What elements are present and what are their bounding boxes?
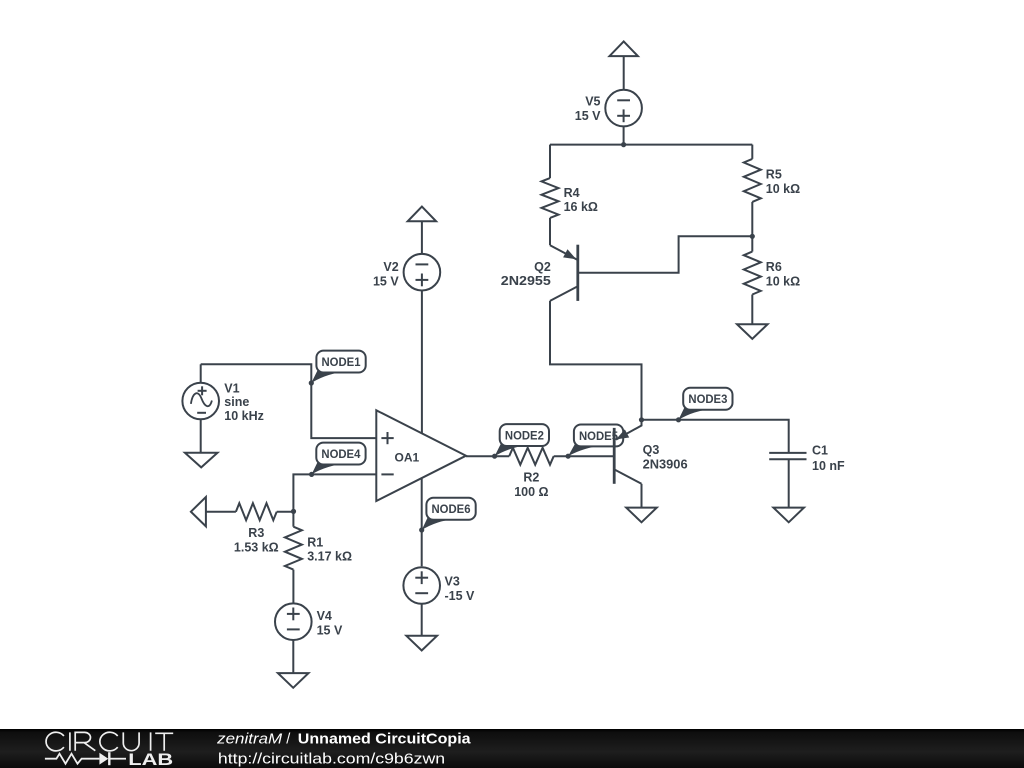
wire R2 to Q3 base (554, 455, 613, 457)
power flag (+15V rail) above V5 (610, 41, 638, 90)
node NODE4 label (309, 443, 366, 477)
wire V1 to op-amp noninverting input (201, 364, 377, 438)
junction Q3 emitter / NODE3 rail (639, 417, 644, 422)
ground below C1 (773, 508, 804, 523)
transistor Q3 2N3906 (614, 420, 687, 508)
svg-text:V4: V4 (317, 609, 332, 623)
svg-text:NODE2: NODE2 (505, 429, 544, 443)
svg-text:Q3: Q3 (643, 443, 660, 457)
wire top rail (550, 144, 752, 146)
ground below V4 (278, 673, 309, 688)
ground below V1 (185, 453, 218, 468)
voltage source V4 15 V (275, 603, 343, 673)
resistor R6 10 k (744, 236, 800, 324)
node NODE1 label (309, 351, 366, 386)
svg-text:2N2955: 2N2955 (501, 274, 551, 288)
svg-text:sine: sine (224, 395, 249, 409)
wire op-amp output (466, 455, 509, 457)
ground below V3 (406, 636, 437, 651)
svg-text:R1: R1 (307, 535, 323, 549)
svg-text:15 V: 15 V (575, 109, 601, 123)
svg-text:R2: R2 (523, 471, 539, 485)
node NODE5 label (566, 425, 624, 459)
voltage source V5 15 V (575, 90, 642, 145)
node NODE2 label (492, 424, 549, 459)
svg-text:http://circuitlab.com/c9b6zwn: http://circuitlab.com/c9b6zwn (218, 750, 445, 767)
power flag above V2 (408, 207, 436, 255)
svg-text:NODE3: NODE3 (688, 392, 727, 406)
transistor Q2 2N2955 (501, 245, 578, 301)
svg-text:1.53 kΩ: 1.53 kΩ (234, 540, 279, 554)
svg-text:V1: V1 (224, 381, 239, 395)
svg-text:NODE5: NODE5 (579, 429, 618, 443)
junction R5/R6/Q2-base node (750, 234, 755, 239)
svg-text:10 kHz: 10 kHz (224, 409, 264, 423)
svg-text:10 kΩ: 10 kΩ (766, 274, 800, 288)
svg-text:OA1: OA1 (395, 450, 420, 464)
svg-text:R3: R3 (248, 526, 264, 540)
svg-text:LAB: LAB (128, 751, 173, 768)
logo squiggle (resistor + diode) (45, 754, 100, 764)
ground left of R3 (rotated) (191, 497, 236, 526)
node NODE6 label (419, 498, 476, 533)
svg-text:V3: V3 (445, 575, 460, 589)
resistor R5 10 k (744, 145, 800, 237)
svg-text:NODE6: NODE6 (432, 502, 471, 516)
wire Q2 base to R5/R6 node (579, 236, 752, 272)
svg-text:zenitraM / Unnamed CircuitCopi: zenitraM / Unnamed CircuitCopia (216, 732, 472, 748)
svg-text:C1: C1 (812, 444, 828, 458)
wire NODE3 rail to C1 (642, 420, 789, 453)
wire V2 to op-amp V+ pin (421, 291, 423, 434)
svg-text:100 Ω: 100 Ω (514, 485, 548, 499)
ground below Q3 (626, 508, 657, 523)
svg-text:10 kΩ: 10 kΩ (766, 182, 800, 196)
svg-text:3.17 kΩ: 3.17 kΩ (307, 550, 352, 564)
voltage source V2 15 V (373, 254, 440, 291)
svg-text:R4: R4 (564, 186, 580, 200)
resistor R3 1.53 k (234, 503, 294, 554)
voltage source V3 -15 V (403, 567, 475, 636)
ground below R6 (737, 324, 768, 339)
node NODE3 label (676, 388, 733, 423)
svg-text:R6: R6 (766, 260, 782, 274)
wire op-amp V- pin to V3 (421, 478, 423, 566)
svg-text:15 V: 15 V (373, 275, 399, 289)
svg-text:V2: V2 (383, 260, 398, 274)
svg-text:NODE1: NODE1 (322, 355, 361, 369)
svg-text:10 nF: 10 nF (812, 459, 845, 473)
svg-text:16 kΩ: 16 kΩ (564, 200, 598, 214)
junction R3/R1/NODE4 wire (291, 509, 296, 514)
svg-text:NODE4: NODE4 (321, 447, 360, 461)
resistor R2 100 (509, 448, 554, 499)
resistor R1 3.17 k (285, 511, 352, 603)
svg-text:15 V: 15 V (317, 624, 343, 638)
footer bar (0, 729, 1024, 768)
wire Q2 collector to NODE3 junction (550, 301, 642, 420)
svg-text:-15 V: -15 V (445, 589, 476, 603)
CircuitLab logo "CIRCUIT" (46, 732, 173, 751)
svg-text:R5: R5 (766, 168, 782, 182)
svg-text:V5: V5 (585, 95, 600, 109)
capacitor C1 10 nF (769, 444, 845, 508)
svg-text:Q2: Q2 (534, 260, 551, 274)
voltage source V1 sine 10 kHz (182, 364, 264, 452)
resistor R4 16 k (542, 145, 598, 246)
op-amp OA1 (376, 410, 466, 501)
wire inverting input to R3/R1 junction (293, 474, 376, 511)
junction V5/top rail (621, 142, 626, 147)
svg-text:2N3906: 2N3906 (643, 457, 688, 471)
